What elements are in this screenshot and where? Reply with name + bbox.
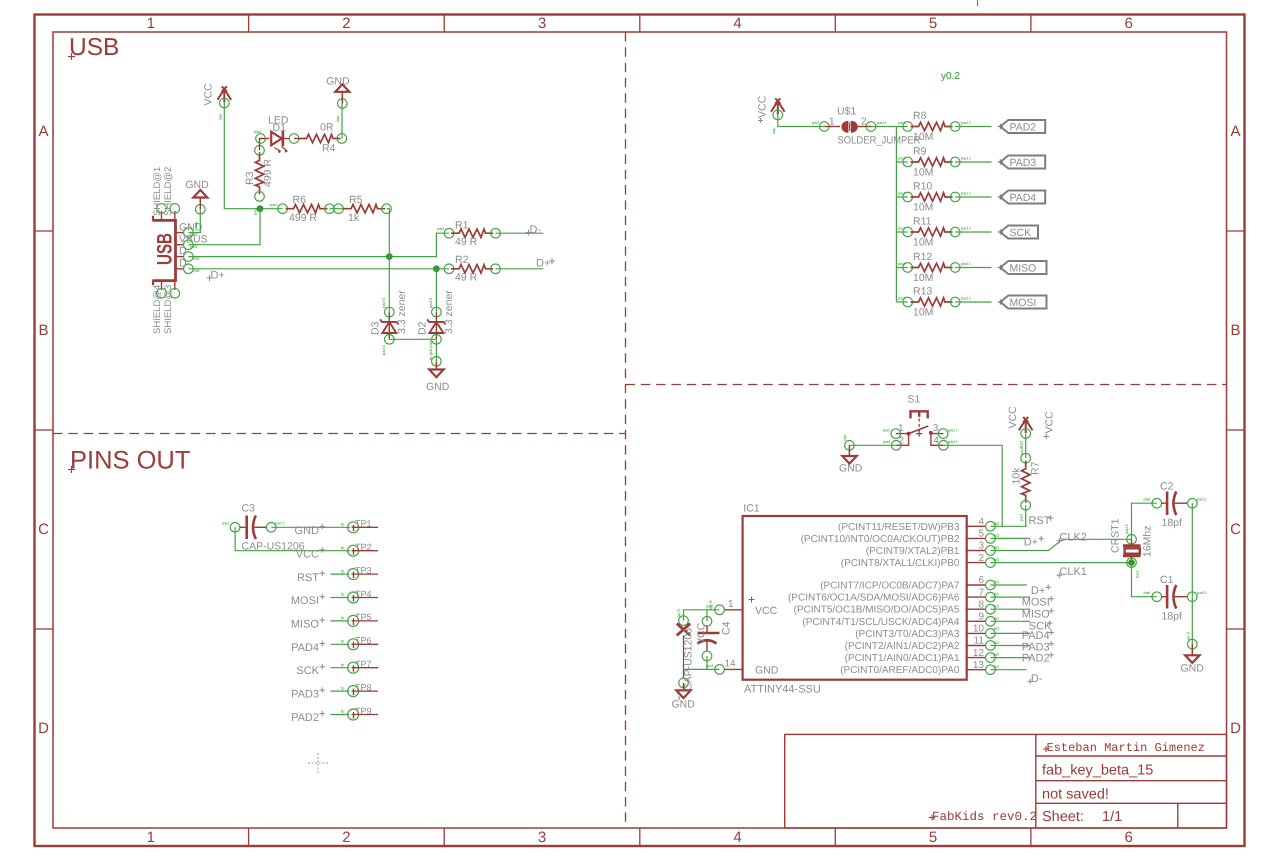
svg-text:TP5: TP5: [355, 612, 372, 622]
svg-text:sup: sup: [335, 115, 340, 122]
wire PB2 (D+): [990, 537, 1030, 539]
svg-text:CAP-US1206: CAP-US1206: [683, 628, 695, 691]
svg-text:VCC: VCC: [203, 83, 215, 106]
flag SCK: [998, 226, 1038, 240]
svg-text:PAD3: PAD3: [1022, 641, 1050, 653]
svg-text:ATTINY44-SSU: ATTINY44-SSU: [744, 684, 821, 696]
svg-text:pad: pad: [812, 120, 819, 125]
svg-text:USB: USB: [69, 34, 119, 61]
svg-text:pad: pad: [898, 261, 905, 266]
wire PB1 to crystal (CLK2): [990, 539, 1131, 550]
capacitor C3: [222, 503, 305, 553]
crystal CRST1: [1110, 518, 1154, 578]
wire C4 top: [706, 610, 708, 621]
svg-text:R7: R7: [1030, 461, 1042, 475]
svg-text:6: 6: [1125, 15, 1133, 32]
svg-text:1/1: 1/1: [1102, 809, 1122, 825]
svg-text:PAD4: PAD4: [1010, 192, 1037, 204]
svg-text:1: 1: [829, 116, 835, 127]
resistor R8 10M: [898, 110, 972, 143]
svg-text:VCC: VCC: [755, 605, 778, 617]
svg-text:PAD4: PAD4: [1022, 630, 1050, 642]
svg-text:4: 4: [978, 517, 984, 528]
row tick right 3: [1227, 628, 1245, 630]
node junction D+ / zener D2: [433, 265, 440, 272]
svg-text:8: 8: [978, 599, 984, 610]
svg-text:SCK: SCK: [296, 665, 319, 677]
emission arrows: [274, 147, 287, 152]
switch S1: [883, 394, 959, 451]
svg-text:R11: R11: [913, 216, 932, 228]
svg-text:Esteban Martin Gimenez: Esteban Martin Gimenez: [1047, 741, 1205, 755]
wire vertical bus: [895, 127, 897, 303]
svg-text:D: D: [38, 720, 49, 737]
svg-text:10M: 10M: [913, 272, 933, 284]
column tick top 5: [1030, 15, 1032, 33]
test point TP1: [341, 519, 378, 533]
svg-text:USB: USB: [154, 233, 177, 265]
svg-text:49 R: 49 R: [455, 272, 478, 284]
svg-text:padRST: padRST: [1019, 440, 1024, 455]
row tick right 1: [1227, 230, 1245, 232]
wire PB0 to crystal (CLK1): [990, 562, 1131, 564]
ground GND (above R4, hollow up): [326, 76, 350, 123]
pin numbers: [973, 517, 985, 671]
row tick left 3: [35, 628, 54, 630]
svg-text:13: 13: [973, 660, 985, 671]
svg-text:5: 5: [929, 829, 937, 846]
wire R4 to GND: [341, 104, 343, 139]
svg-text:VCC: VCC: [296, 548, 319, 560]
svg-text:pad: pad: [898, 226, 905, 231]
pin stubs right: [967, 526, 986, 669]
svg-text:pad 1: pad 1: [1197, 590, 1208, 595]
svg-text:SHIELD@1: SHIELD@1: [152, 167, 163, 216]
LED D1: [254, 115, 299, 154]
svg-text:R4: R4: [322, 143, 336, 155]
svg-text:(PCINT5/OC1B/MISO/DO/ADC5)PA5: (PCINT5/OC1B/MISO/DO/ADC5)PA5: [794, 605, 960, 616]
wire R10 to PAD4: [955, 196, 991, 198]
column tick top 1: [248, 15, 250, 33]
svg-text:not saved!: not saved!: [1042, 787, 1109, 803]
column tick bottom 1: [248, 828, 250, 846]
svg-text:pad 1: pad 1: [1124, 523, 1129, 534]
wire D+ from USB to R2: [188, 268, 449, 270]
svg-text:S1: S1: [908, 394, 921, 406]
wire C3 to TP1 (GND): [271, 526, 350, 528]
svg-text:R9: R9: [913, 146, 927, 158]
svg-text:tp gnd pad: tp gnd pad: [428, 341, 433, 360]
svg-text:per D: per D: [708, 600, 713, 610]
svg-text:bD: bD: [994, 580, 999, 585]
pin function labels: [788, 522, 960, 676]
svg-text:VCC: VCC: [1007, 406, 1019, 429]
wire PA2 (PAD3): [990, 645, 1030, 647]
svg-text:pad: pad: [254, 129, 261, 134]
svg-text:R8: R8: [913, 110, 927, 122]
svg-text:RST: RST: [1029, 515, 1051, 527]
title origin cross: [68, 53, 75, 60]
svg-text:pad 1: pad 1: [948, 428, 959, 433]
svg-text:3.3 zener: 3.3 zener: [396, 290, 408, 334]
svg-text:R2: R2: [455, 254, 469, 266]
svg-text:SHIELD@2: SHIELD@2: [163, 167, 174, 216]
svg-text:9: 9: [978, 612, 984, 623]
wire TP9: [330, 714, 349, 716]
supply VCC symbol (R7): [1007, 406, 1056, 455]
svg-text:3: 3: [933, 423, 939, 434]
svg-text:pad 1: pad 1: [961, 296, 972, 301]
svg-text:MISO: MISO: [291, 619, 320, 631]
svg-text:(PCINT9/XTAL2)PB1: (PCINT9/XTAL2)PB1: [866, 546, 960, 557]
flag MOSI: [998, 296, 1047, 310]
svg-text:R13: R13: [913, 286, 932, 298]
svg-text:14: 14: [725, 659, 737, 670]
capacitor C5 (X symbol): [676, 608, 695, 700]
svg-text:pad 1: pad 1: [961, 120, 972, 125]
svg-text:PAD3: PAD3: [1010, 157, 1037, 169]
wire crystal top to C2: [1132, 503, 1157, 539]
sheet origin cross: [308, 753, 328, 773]
svg-text:6: 6: [978, 575, 984, 586]
svg-text:bD: bD: [994, 640, 999, 645]
resistor R6: [270, 194, 334, 224]
decoupling caps left of IC: [672, 600, 733, 710]
svg-text:GND: GND: [326, 76, 350, 88]
svg-text:(PCINT6/OC1A/SDA/MOSI/ADC6)PA6: (PCINT6/OC1A/SDA/MOSI/ADC6)PA6: [788, 593, 960, 604]
svg-text:R3: R3: [244, 171, 256, 185]
svg-text:4: 4: [933, 436, 939, 447]
svg-text:up 0: up 0: [676, 608, 681, 617]
svg-text:1: 1: [147, 829, 155, 846]
svg-text:pad: pad: [898, 156, 905, 161]
svg-text:pad: pad: [270, 202, 277, 207]
svg-text:D+: D+: [536, 258, 550, 270]
IC1 pin 1 (VCC): [706, 599, 743, 615]
test point TP2: [341, 542, 378, 556]
svg-text:R1: R1: [455, 220, 469, 232]
svg-text:(PCINT3/T0/ADC3)PA3: (PCINT3/T0/ADC3)PA3: [855, 629, 960, 640]
test point TP7: [341, 659, 378, 673]
resistor R3: [244, 146, 274, 216]
frame column numbers bottom: [147, 829, 1133, 846]
wire GND pin14 net: [684, 669, 720, 678]
svg-text:1: 1: [147, 15, 155, 32]
svg-text:TP9: TP9: [355, 706, 372, 716]
resistor R12 10M: [898, 251, 972, 284]
svg-text:49 R: 49 R: [455, 236, 478, 248]
svg-text:VCC: VCC: [1044, 411, 1056, 434]
svg-text:VCC: VCC: [757, 95, 769, 118]
pin stubs: [896, 434, 909, 446]
svg-text:D-: D-: [1031, 673, 1043, 685]
svg-text:FabKids rev0.2: FabKids rev0.2: [932, 810, 1037, 824]
IC1 right-side pins: [788, 517, 999, 677]
wire VCC pin1 net: [684, 610, 720, 621]
title block sheet divider: [1177, 803, 1179, 828]
svg-text:up 0: up 0: [1186, 631, 1191, 640]
svg-text:(PCINT2/AIN1/ADC2)PA2: (PCINT2/AIN1/ADC2)PA2: [845, 641, 960, 652]
svg-text:bD: bD: [994, 604, 999, 609]
svg-text:2: 2: [342, 829, 350, 846]
svg-text:GND: GND: [839, 463, 863, 475]
column tick top 4: [834, 15, 836, 33]
ground GND (left of S1): [839, 434, 863, 475]
svg-text:GND: GND: [1181, 663, 1205, 675]
svg-text:C3: C3: [242, 503, 256, 515]
tiny pad marks: [994, 521, 999, 669]
wire R9 to PAD3: [955, 161, 991, 163]
svg-text:pad 0: pad 0: [381, 297, 386, 308]
svg-text:sup: sup: [218, 113, 223, 120]
svg-text:12: 12: [973, 648, 985, 659]
svg-text:3: 3: [538, 829, 546, 846]
wire R2 to D+ label: [496, 268, 544, 270]
wire PA3 (PAD4): [990, 632, 1030, 634]
svg-text:Sheet:: Sheet:: [1042, 809, 1084, 825]
wire/stub LED anode to R3: [260, 139, 270, 151]
column tick bottom 4: [834, 828, 836, 846]
svg-text:R5: R5: [349, 194, 363, 206]
svg-text:bD: bD: [994, 664, 999, 669]
frame row letters: [38, 123, 1241, 737]
svg-text:bD: bD: [994, 557, 999, 562]
svg-text:pad 1: pad 1: [877, 120, 888, 125]
solder jumper U$1: [812, 106, 921, 147]
svg-text:GND: GND: [672, 699, 696, 711]
svg-text:sup: sup: [771, 127, 776, 134]
dashed partition vertical: [625, 32, 627, 828]
wire PA6 (MOSI): [990, 596, 1030, 598]
svg-text:R10: R10: [913, 181, 932, 193]
svg-text:D3: D3: [370, 321, 382, 335]
svg-text:2: 2: [978, 553, 984, 564]
wire VBUS: [188, 209, 260, 245]
svg-text:TP7: TP7: [355, 659, 372, 669]
svg-text:GND: GND: [426, 381, 450, 393]
svg-text:pad: pad: [898, 120, 905, 125]
svg-text:TP8: TP8: [355, 682, 372, 692]
test point TP3: [341, 565, 378, 579]
svg-text:D+: D+: [211, 270, 225, 282]
svg-text:D: D: [179, 257, 187, 269]
flag PAD2: [998, 120, 1046, 134]
svg-text:pad: pad: [883, 439, 890, 444]
svg-text:pad: pad: [898, 296, 905, 301]
svg-text:D: D: [179, 245, 187, 257]
wire C4 bottom: [706, 656, 708, 669]
svg-text:bD: bD: [994, 533, 999, 538]
test point TP9: [341, 706, 378, 720]
wire S1 to RST net: [943, 445, 1002, 526]
svg-text:pad 0: pad 0: [428, 297, 433, 308]
svg-text:MISO: MISO: [1010, 263, 1037, 275]
zener diode D3 3.3 zener: [370, 290, 409, 355]
svg-text:10: 10: [973, 624, 985, 635]
shield pins bottom: [161, 281, 163, 290]
svg-text:499 R: 499 R: [262, 159, 274, 187]
svg-text:sup: sup: [193, 221, 198, 228]
wire C2 right to C1 right: [1191, 503, 1193, 597]
svg-text:16Mhz: 16Mhz: [1142, 525, 1154, 557]
row tick left 2: [35, 429, 54, 431]
svg-text:MOSI: MOSI: [1022, 597, 1050, 609]
svg-text:RST: RST: [297, 572, 319, 584]
svg-text:A: A: [38, 123, 48, 140]
wire VCC to R7: [1025, 434, 1027, 459]
resistor R10 10M: [898, 181, 972, 214]
title block vertical divider: [1035, 734, 1037, 828]
svg-text:MOSI: MOSI: [1010, 297, 1037, 309]
svg-text:(PCINT8/XTAL1/CLKI)PB0: (PCINT8/XTAL1/CLKI)PB0: [841, 558, 960, 569]
svg-text:pad: pad: [1019, 514, 1024, 521]
resistor R13 10M: [898, 286, 972, 319]
svg-text:pad 1: pad 1: [961, 191, 972, 196]
svg-text:R6: R6: [293, 194, 307, 206]
dashed partition horizontal left: [53, 433, 626, 435]
node junction crystal/CLK1/C1: [1128, 559, 1135, 566]
wire GND to S1: [849, 444, 896, 446]
capacitor C4: [696, 600, 733, 661]
svg-text:10k: 10k: [1011, 467, 1023, 485]
wire R12 to MISO: [955, 267, 991, 269]
test point TP4: [341, 589, 378, 603]
svg-text:CLK1: CLK1: [1059, 566, 1087, 578]
svg-text:4: 4: [733, 829, 741, 846]
svg-text:PINS OUT: PINS OUT: [70, 447, 190, 475]
svg-text:pad 1: pad 1: [961, 156, 972, 161]
svg-text:PAD3: PAD3: [291, 689, 319, 701]
wire R8 to PAD2: [955, 126, 991, 128]
svg-text:TbD: TbD: [192, 256, 200, 261]
svg-text:4: 4: [733, 15, 741, 32]
ground GND (below D2, filled down): [426, 357, 450, 394]
svg-text:A: A: [1230, 123, 1240, 140]
svg-text:7: 7: [978, 587, 984, 598]
green tick top edge: [977, 0, 979, 6]
svg-text:pad: pad: [883, 428, 890, 433]
test point TP8: [341, 682, 378, 696]
title block row line 2: [1036, 780, 1227, 782]
wire TP4: [330, 597, 349, 599]
column tick bottom 2: [443, 828, 445, 846]
svg-text:bD: bD: [994, 521, 999, 526]
svg-text:bD: bD: [994, 652, 999, 657]
svg-text:y0.2: y0.2: [941, 71, 960, 82]
svg-text:TP6: TP6: [355, 636, 372, 646]
svg-text:5: 5: [978, 529, 984, 540]
svg-text:3: 3: [538, 15, 546, 32]
svg-text:PAD2: PAD2: [1010, 122, 1037, 134]
ground GND (above USB, hollow up): [185, 179, 209, 228]
resistor R1 49R: [437, 220, 500, 249]
svg-text:PAD2: PAD2: [291, 712, 319, 724]
capacitor C2 18pf: [1144, 481, 1208, 530]
svg-text:2: 2: [861, 116, 867, 127]
svg-text:D: D: [1230, 720, 1241, 737]
svg-text:pad: pad: [1144, 497, 1151, 502]
wire R13 to MOSI: [955, 301, 991, 303]
flag PAD3: [998, 156, 1046, 170]
title block row line 1: [1036, 755, 1227, 757]
svg-text:D+: D+: [1024, 536, 1038, 548]
svg-text:GND: GND: [755, 665, 779, 677]
svg-text:CRST1: CRST1: [1110, 518, 1122, 553]
svg-text:(PCINT4/T1/SCL/USCK/ADC4)PA4: (PCINT4/T1/SCL/USCK/ADC4)PA4: [802, 617, 960, 628]
svg-text:C1: C1: [1160, 574, 1174, 586]
node junction D- / zener D3: [386, 253, 393, 260]
wire C1 right to GND: [1191, 597, 1193, 644]
svg-text:fab_key_beta_15: fab_key_beta_15: [1042, 763, 1153, 779]
wire VCC to R6: [224, 103, 282, 209]
column tick top 3: [639, 15, 641, 33]
wire PA7 (D+): [990, 584, 1026, 586]
wire TP8: [330, 690, 349, 692]
flag MISO: [998, 261, 1047, 275]
svg-text:IC1: IC1: [743, 503, 760, 515]
capacitor C1 18pf: [1144, 574, 1208, 623]
svg-text:pad: pad: [1135, 571, 1140, 578]
svg-text:3: 3: [978, 541, 984, 552]
svg-text:pad 1: pad 1: [381, 344, 386, 355]
wire TP6: [330, 643, 349, 645]
wire C3 to TP2 (VCC): [235, 527, 350, 550]
svg-text:PAD2: PAD2: [1022, 653, 1050, 665]
column tick bottom 5: [1030, 828, 1032, 846]
VCC pin circle: [220, 98, 230, 108]
test point TP5: [341, 612, 378, 626]
svg-text:0R: 0R: [320, 122, 334, 134]
svg-text:10M: 10M: [913, 201, 933, 213]
svg-text:bD: bD: [994, 592, 999, 597]
ground GND (below C5): [672, 683, 696, 711]
svg-text:pad: pad: [437, 226, 444, 231]
svg-text:VCC: VCC: [696, 622, 708, 645]
wire USB GND pin to GND symbol: [188, 209, 200, 232]
wire R11 to SCK: [955, 231, 991, 233]
resistor R7 10k: [1011, 453, 1042, 521]
svg-text:(PCINT10/INT0/OC0A/CKOUT)PB2: (PCINT10/INT0/OC0A/CKOUT)PB2: [801, 534, 960, 545]
IC1 pin 14 (GND): [706, 659, 743, 675]
svg-text:1: 1: [898, 423, 904, 434]
svg-text:pad: pad: [222, 521, 229, 526]
svg-text:hbD: hbD: [190, 244, 197, 249]
svg-text:pad 1: pad 1: [961, 226, 972, 231]
row tick right 2: [1227, 429, 1245, 431]
svg-text:GND: GND: [295, 525, 320, 537]
svg-text:1: 1: [728, 599, 734, 610]
svg-text:SHIELD@4: SHIELD@4: [152, 285, 163, 334]
column tick bottom 3: [639, 828, 641, 846]
svg-text:10M: 10M: [913, 131, 933, 143]
svg-text:bD: bD: [994, 616, 999, 621]
svg-text:(PCINT7/ICP/OC0B/ADC7)PA7: (PCINT7/ICP/OC0B/ADC7)PA7: [820, 581, 960, 592]
svg-text:+: +: [748, 593, 755, 607]
svg-text:6: 6: [1125, 829, 1133, 846]
svg-text:TP1: TP1: [355, 519, 372, 529]
svg-text:pad: pad: [253, 208, 258, 215]
wire TP7: [330, 667, 349, 669]
svg-text:D+: D+: [1031, 585, 1045, 597]
svg-text:pad: pad: [898, 191, 905, 196]
svg-text:5: 5: [929, 15, 937, 32]
svg-text:GND: GND: [185, 179, 209, 191]
title origin cross: [68, 466, 75, 473]
test point TP6: [341, 636, 378, 650]
svg-text:bD: bD: [994, 626, 999, 631]
flag PAD4: [998, 191, 1046, 205]
svg-text:sup: sup: [842, 434, 847, 441]
